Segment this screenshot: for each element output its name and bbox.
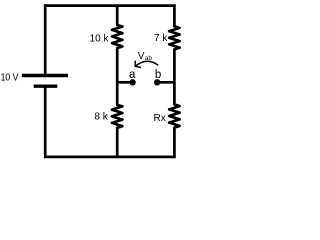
svg-text:ab: ab xyxy=(145,55,153,62)
svg-text:b: b xyxy=(155,69,161,81)
svg-text:10 V: 10 V xyxy=(1,73,19,84)
svg-text:V: V xyxy=(138,51,145,62)
svg-text:7 k: 7 k xyxy=(154,33,168,44)
svg-text:Rx: Rx xyxy=(154,113,166,124)
svg-text:8 k: 8 k xyxy=(94,112,108,123)
svg-text:10 k: 10 k xyxy=(90,34,110,45)
svg-text:a: a xyxy=(129,69,136,81)
